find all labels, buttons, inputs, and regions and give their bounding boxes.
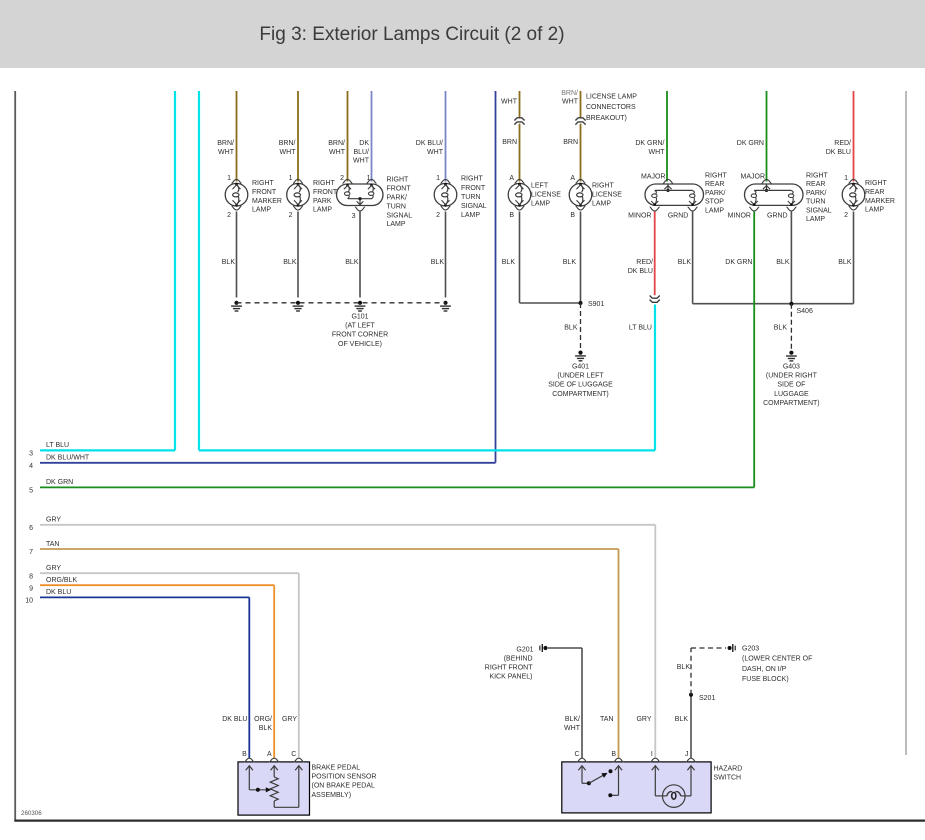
svg-text:6: 6 (29, 525, 33, 532)
svg-text:S901: S901 (588, 301, 604, 308)
svg-text:LAMP: LAMP (592, 201, 611, 208)
svg-text:DK GRN: DK GRN (46, 479, 73, 486)
svg-text:BLK: BLK (563, 259, 577, 266)
svg-text:RIGHT: RIGHT (806, 173, 829, 180)
svg-text:TAN: TAN (600, 716, 613, 723)
svg-text:G101: G101 (351, 314, 368, 321)
svg-text:SIGNAL: SIGNAL (806, 207, 832, 214)
svg-text:BLK: BLK (678, 259, 692, 266)
svg-text:2: 2 (844, 212, 848, 219)
svg-text:FUSE BLOCK): FUSE BLOCK) (742, 676, 789, 683)
svg-text:REAR: REAR (806, 181, 825, 188)
svg-text:DK GRN/: DK GRN/ (635, 140, 664, 147)
svg-text:(UNDER RIGHT: (UNDER RIGHT (766, 373, 818, 380)
svg-text:GRY: GRY (46, 517, 61, 524)
svg-text:TAN: TAN (46, 541, 59, 548)
svg-text:WHT: WHT (564, 725, 581, 732)
svg-text:DK BLU/WHT: DK BLU/WHT (46, 455, 90, 462)
svg-text:B: B (242, 751, 247, 758)
svg-text:I: I (651, 751, 653, 758)
svg-text:LUGGAGE: LUGGAGE (774, 391, 809, 398)
svg-text:Fig 3: Exterior Lamps Circuit: Fig 3: Exterior Lamps Circuit (2 of 2) (259, 24, 564, 45)
svg-text:MARKER: MARKER (252, 198, 282, 205)
svg-text:(ON BRAKE PEDAL: (ON BRAKE PEDAL (312, 783, 376, 790)
svg-text:(UNDER LEFT: (UNDER LEFT (557, 373, 604, 380)
svg-text:A: A (570, 175, 575, 182)
svg-text:C: C (291, 751, 296, 758)
svg-text:LAMP: LAMP (806, 216, 825, 223)
svg-text:ORG/: ORG/ (254, 716, 272, 723)
svg-text:BRAKE PEDAL: BRAKE PEDAL (312, 764, 361, 771)
svg-text:B: B (611, 751, 616, 758)
svg-text:BLK: BLK (774, 325, 788, 332)
svg-text:GRY: GRY (636, 716, 651, 723)
svg-text:KICK PANEL): KICK PANEL) (489, 674, 532, 681)
svg-text:J: J (685, 751, 689, 758)
svg-text:FRONT: FRONT (387, 186, 412, 193)
svg-text:BLK: BLK (838, 259, 852, 266)
svg-text:TURN: TURN (806, 199, 825, 206)
svg-text:GRY: GRY (282, 716, 297, 723)
svg-text:4: 4 (29, 463, 33, 470)
svg-text:FRONT: FRONT (313, 189, 338, 196)
svg-text:HAZARD: HAZARD (714, 766, 743, 773)
svg-text:COMPARTMENT): COMPARTMENT) (552, 391, 609, 398)
svg-text:RIGHT: RIGHT (313, 180, 336, 187)
svg-text:RIGHT FRONT: RIGHT FRONT (485, 665, 533, 672)
svg-text:LT BLU: LT BLU (46, 442, 69, 449)
svg-text:RIGHT: RIGHT (387, 177, 410, 184)
svg-text:FRONT: FRONT (252, 189, 277, 196)
svg-text:LAMP: LAMP (705, 207, 724, 214)
svg-text:LICENSE: LICENSE (531, 192, 561, 199)
svg-text:RIGHT: RIGHT (865, 180, 888, 187)
svg-text:BLK/: BLK/ (565, 716, 580, 723)
svg-text:DK GRN: DK GRN (725, 259, 752, 266)
svg-text:1: 1 (367, 175, 371, 182)
svg-text:LAMP: LAMP (313, 207, 332, 214)
svg-text:BLK: BLK (502, 259, 516, 266)
svg-text:RIGHT: RIGHT (592, 183, 615, 190)
svg-text:2: 2 (340, 175, 344, 182)
svg-text:GRY: GRY (46, 565, 61, 572)
svg-text:BLK: BLK (259, 725, 273, 732)
svg-text:DK BLU: DK BLU (826, 149, 851, 156)
svg-text:ORG/BLK: ORG/BLK (46, 577, 77, 584)
svg-text:WHT: WHT (218, 149, 235, 156)
svg-text:WHT: WHT (562, 99, 579, 106)
svg-text:WHT: WHT (501, 99, 518, 106)
svg-text:BLK: BLK (283, 259, 297, 266)
svg-text:PARK/: PARK/ (806, 190, 827, 197)
svg-text:OF VEHICLE): OF VEHICLE) (338, 341, 382, 348)
svg-text:MAJOR: MAJOR (741, 174, 766, 181)
svg-text:ASSEMBLY): ASSEMBLY) (312, 792, 352, 799)
svg-text:RIGHT: RIGHT (705, 173, 728, 180)
svg-text:LT BLU: LT BLU (629, 325, 652, 332)
svg-text:GRND: GRND (767, 212, 788, 219)
svg-text:MINOR: MINOR (628, 212, 651, 219)
svg-text:B: B (509, 212, 514, 219)
svg-text:BREAKOUT): BREAKOUT) (586, 115, 627, 122)
svg-text:B: B (570, 212, 575, 219)
svg-text:BLK: BLK (222, 259, 236, 266)
svg-text:G201: G201 (516, 647, 533, 654)
svg-text:DK: DK (359, 140, 369, 147)
svg-text:BLK: BLK (431, 259, 445, 266)
svg-text:BRN/: BRN/ (217, 140, 234, 147)
svg-text:BLK: BLK (776, 259, 790, 266)
svg-text:LAMP: LAMP (252, 207, 271, 214)
svg-text:LAMP: LAMP (531, 201, 550, 208)
svg-text:2: 2 (289, 212, 293, 219)
svg-text:(BEHIND: (BEHIND (504, 656, 533, 663)
svg-text:RIGHT: RIGHT (461, 176, 484, 183)
svg-text:TURN: TURN (387, 203, 406, 210)
svg-text:WHT: WHT (329, 149, 346, 156)
svg-text:DK BLU/: DK BLU/ (416, 140, 443, 147)
svg-text:A: A (509, 175, 514, 182)
svg-text:BRN: BRN (502, 139, 517, 146)
svg-text:SIDE OF: SIDE OF (777, 382, 805, 389)
svg-text:TURN: TURN (461, 194, 480, 201)
svg-text:POSITION SENSOR: POSITION SENSOR (312, 774, 377, 781)
svg-text:PARK: PARK (313, 198, 332, 205)
svg-text:PARK/: PARK/ (387, 195, 408, 202)
svg-text:LEFT: LEFT (531, 183, 549, 190)
svg-text:DK BLU: DK BLU (46, 589, 71, 596)
svg-text:SIDE OF LUGGAGE: SIDE OF LUGGAGE (548, 382, 613, 389)
svg-text:WHT: WHT (427, 149, 444, 156)
svg-text:1: 1 (436, 175, 440, 182)
svg-text:S406: S406 (797, 308, 813, 315)
svg-text:MINOR: MINOR (728, 212, 751, 219)
svg-text:1: 1 (227, 175, 231, 182)
svg-text:9: 9 (29, 585, 33, 592)
svg-text:BLK: BLK (345, 259, 359, 266)
svg-text:LAMP: LAMP (461, 212, 480, 219)
svg-text:WHT: WHT (280, 149, 297, 156)
svg-text:DK GRN: DK GRN (737, 140, 764, 147)
svg-text:8: 8 (29, 573, 33, 580)
svg-text:10: 10 (25, 598, 33, 605)
svg-text:SWITCH: SWITCH (714, 775, 742, 782)
svg-text:1: 1 (289, 175, 293, 182)
svg-text:SIGNAL: SIGNAL (387, 212, 413, 219)
svg-text:GRND: GRND (668, 212, 689, 219)
svg-text:REAR: REAR (705, 181, 724, 188)
svg-text:1: 1 (844, 175, 848, 182)
svg-text:LICENSE: LICENSE (592, 192, 622, 199)
svg-text:260306: 260306 (21, 810, 42, 817)
svg-text:REAR: REAR (865, 189, 884, 196)
svg-text:RED/: RED/ (636, 259, 653, 266)
svg-text:MARKER: MARKER (865, 198, 895, 205)
svg-text:2: 2 (227, 212, 231, 219)
svg-text:MAJOR: MAJOR (641, 174, 666, 181)
svg-text:BLU/: BLU/ (353, 149, 369, 156)
svg-text:CONNECTORS: CONNECTORS (586, 104, 636, 111)
svg-text:BLK: BLK (677, 664, 691, 671)
svg-text:WHT: WHT (353, 158, 370, 165)
svg-text:3: 3 (29, 451, 33, 458)
svg-text:BRN/: BRN/ (561, 90, 578, 97)
svg-text:WHT: WHT (649, 149, 666, 156)
svg-text:RIGHT: RIGHT (252, 180, 275, 187)
svg-text:BRN: BRN (563, 139, 578, 146)
svg-text:C: C (574, 751, 579, 758)
svg-text:7: 7 (29, 549, 33, 556)
svg-text:FRONT CORNER: FRONT CORNER (332, 332, 388, 339)
svg-text:BRN/: BRN/ (328, 140, 345, 147)
svg-text:LAMP: LAMP (865, 207, 884, 214)
svg-text:2: 2 (436, 212, 440, 219)
svg-text:BRN/: BRN/ (279, 140, 296, 147)
svg-text:S201: S201 (699, 695, 715, 702)
svg-text:DK BLU: DK BLU (222, 716, 247, 723)
svg-text:(LOWER CENTER OF: (LOWER CENTER OF (742, 656, 812, 663)
svg-text:G203: G203 (742, 646, 759, 653)
svg-text:FRONT: FRONT (461, 185, 486, 192)
svg-text:3: 3 (352, 213, 356, 220)
svg-text:LAMP: LAMP (387, 221, 406, 228)
svg-text:BLK: BLK (564, 325, 578, 332)
svg-text:G403: G403 (783, 364, 800, 371)
svg-text:PARK/: PARK/ (705, 190, 726, 197)
svg-text:(AT LEFT: (AT LEFT (345, 323, 375, 330)
svg-text:BLK: BLK (675, 716, 689, 723)
svg-text:DK BLU: DK BLU (628, 268, 653, 275)
svg-text:LICENSE LAMP: LICENSE LAMP (586, 94, 637, 101)
svg-text:5: 5 (29, 488, 33, 495)
svg-text:G401: G401 (572, 364, 589, 371)
svg-text:COMPARTMENT): COMPARTMENT) (763, 400, 820, 407)
svg-text:SIGNAL: SIGNAL (461, 203, 487, 210)
svg-text:STOP: STOP (705, 199, 724, 206)
svg-text:RED/: RED/ (834, 140, 851, 147)
svg-text:A: A (267, 751, 272, 758)
svg-text:DASH, ON I/P: DASH, ON I/P (742, 666, 787, 673)
